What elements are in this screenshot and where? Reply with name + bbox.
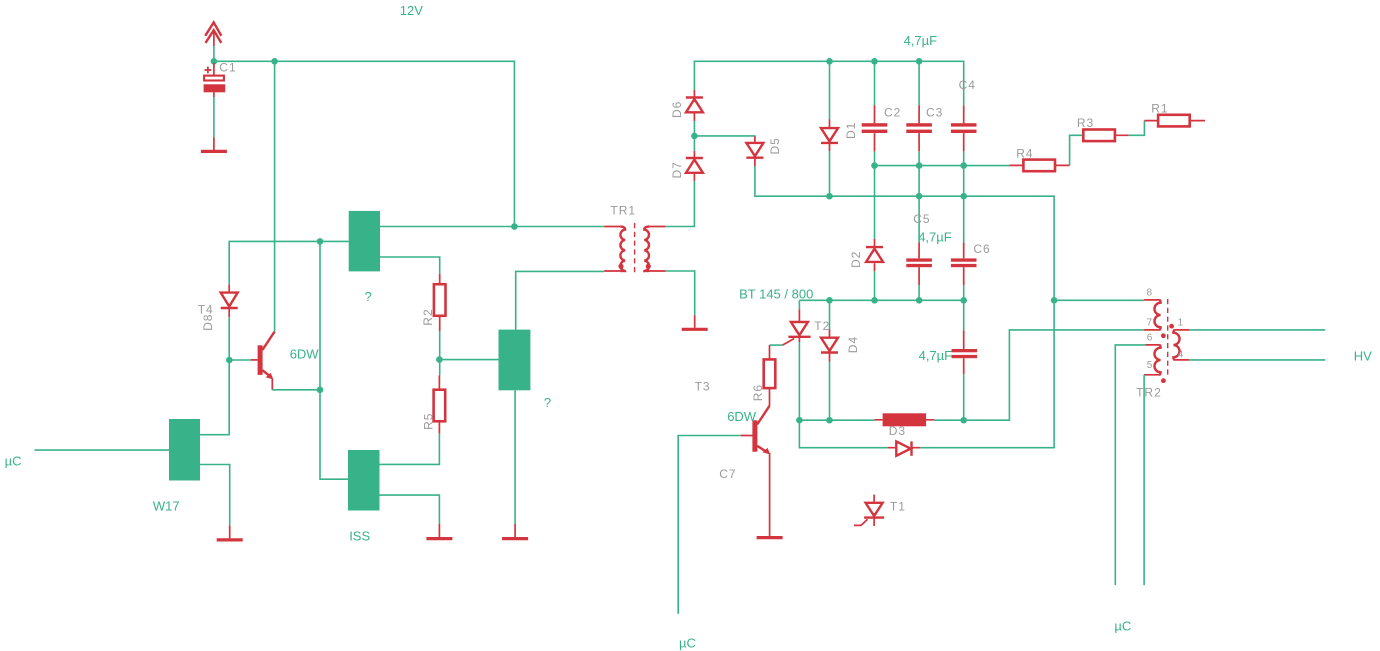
junction rail3 D2 node [871, 297, 878, 304]
wire pin6 down [1115, 345, 1145, 585]
label D7 [670, 161, 684, 178]
wire supply stem [213, 46, 215, 61]
svg-text:C6: C6 [973, 242, 990, 256]
junction D6-D7 node [691, 133, 698, 140]
svg-text:R6: R6 [751, 384, 765, 401]
transistor Q2 6DW [678, 406, 770, 614]
svg-text:C5: C5 [913, 212, 930, 226]
svg-text:D6: D6 [670, 101, 684, 118]
svg-text:6DW: 6DW [727, 409, 757, 424]
label T1 [890, 499, 906, 513]
ground under TR1 [682, 315, 708, 329]
wire cap to rail4 [963, 374, 965, 420]
transistor Q1 6DW [251, 332, 275, 390]
wire block1 left pin to D8 column [229, 241, 349, 284]
wire top rail to C3 [918, 61, 920, 105]
pin number 7 [1147, 318, 1153, 329]
svg-text:HV: HV [1354, 348, 1372, 363]
junction top rail C3 node [916, 58, 923, 65]
label D4 [846, 336, 860, 353]
svg-text:µC: µC [679, 635, 696, 650]
capacitor C3 [906, 105, 932, 151]
inductor-body D3 [875, 413, 935, 426]
capacitor C4 [951, 105, 977, 151]
junction block1 left node [317, 238, 324, 245]
wire T2 anode stem [798, 300, 800, 309]
wire block1 pin3 to R2 [380, 257, 440, 274]
junction pin8 node [1051, 297, 1058, 304]
IC block unnamed2 ? [499, 330, 531, 391]
junction collector riser node [271, 58, 278, 65]
wire rail3 [799, 299, 963, 301]
wire C3 to C5 [918, 151, 920, 242]
label D8 [201, 314, 215, 331]
capacitor C1 [204, 63, 226, 97]
value label 4,7uF bottom [919, 348, 953, 363]
svg-text:C7: C7 [719, 467, 736, 481]
label C5 [913, 212, 930, 226]
svg-text:TR1: TR1 [610, 204, 636, 218]
svg-text:R2: R2 [421, 308, 435, 325]
transformer TR1 [604, 223, 666, 275]
wire pin1 to HV [1189, 329, 1325, 331]
net label 12V [400, 3, 423, 18]
junction supply node [211, 58, 218, 65]
value label 4,7uF mid [918, 229, 952, 244]
junction rail4 T2 node [796, 417, 803, 424]
junction rail2 C5 node [916, 193, 923, 200]
pin number 1 [1178, 318, 1184, 329]
pin number 6 [1147, 333, 1153, 344]
svg-text:D8: D8 [201, 314, 215, 331]
junction rail3 C6 node [960, 297, 967, 304]
svg-text:D1: D1 [844, 122, 858, 139]
wire T2 gate to R6 [770, 344, 783, 346]
junction rail4 cap node [960, 417, 967, 424]
value label ?2 [544, 395, 551, 410]
wire block2 to ground [514, 390, 516, 524]
wire emitter column down to ISS [320, 241, 348, 479]
label C4 [959, 78, 976, 92]
svg-text:?: ? [544, 395, 551, 410]
label D1 [844, 122, 858, 139]
svg-text:6: 6 [1147, 333, 1153, 344]
label R5 [422, 413, 436, 430]
pin number 4 [1178, 350, 1184, 361]
diode D2 [866, 239, 883, 271]
junction base node [226, 357, 233, 364]
junction top rail D1 node [826, 58, 833, 65]
wire divider node to block2 [439, 359, 498, 361]
wire D1 to rail2 [829, 151, 831, 196]
wire C-rail to R4 [875, 165, 1010, 167]
svg-text:TR2: TR2 [1136, 386, 1162, 400]
net label uC right [1114, 619, 1131, 634]
label D3 [889, 424, 906, 438]
wire pin5 down [1143, 375, 1145, 585]
resistor R5 [434, 375, 446, 433]
wire ISS pin2 to ground [380, 495, 440, 524]
wire emitter to column [272, 389, 320, 391]
wire pin4 to HV [1189, 359, 1325, 361]
svg-text:1: 1 [1178, 318, 1184, 329]
wire D4 top [829, 300, 831, 329]
wire D8 to base node and W17 pin [200, 317, 229, 435]
capacitor 4,7uF bottom [952, 330, 978, 374]
svg-text:ISS: ISS [349, 529, 370, 544]
junction TR1 top node [511, 223, 518, 230]
junction rail2 D1 node [826, 193, 833, 200]
net label HV [1354, 348, 1372, 363]
thyristor T2 [783, 309, 811, 345]
label D5 [768, 137, 782, 154]
junction C4 bottom node [960, 162, 967, 169]
capacitor C5 [906, 242, 932, 285]
wire TR1 secondary bottom to ground [666, 271, 695, 315]
label R4 [1016, 146, 1033, 160]
wire 12V rail to drop at x=514 [214, 61, 515, 226]
svg-text:?: ? [365, 289, 372, 304]
label C6 [973, 242, 990, 256]
diode D7 [686, 151, 703, 181]
resistor R6 [764, 345, 776, 406]
wire T2 cathode to rail4 [798, 333, 800, 420]
svg-text:5: 5 [1147, 360, 1153, 371]
ground under W17 [217, 525, 243, 540]
wire block1 to TR1 primary top [380, 226, 604, 228]
wire R4 to R3 [1070, 135, 1084, 165]
diode D5 [746, 136, 763, 166]
ground under C1 [201, 138, 227, 152]
wire base of Q1 [229, 359, 251, 361]
svg-text:W17: W17 [153, 499, 180, 514]
value label W17 [153, 499, 180, 514]
capacitor C6 [951, 242, 977, 285]
svg-text:R3: R3 [1077, 116, 1094, 130]
svg-text:µC: µC [5, 453, 22, 468]
net label BT 145 / 800 [739, 287, 813, 302]
value label 4,7uF top [904, 33, 938, 48]
svg-text:4: 4 [1178, 350, 1184, 361]
value label 6DW [290, 347, 320, 362]
wire TR1 primary bottom to block2 top [516, 271, 605, 329]
label TR1 [610, 204, 636, 218]
diode D6 [686, 90, 703, 121]
svg-text:D7: D7 [670, 161, 684, 178]
value label 6DW right [727, 409, 757, 424]
svg-text:8: 8 [1147, 288, 1153, 299]
junction emitter node [317, 387, 324, 394]
wire C5 to rail3 [918, 285, 920, 300]
resistor R4 [1009, 160, 1069, 172]
IC block W17 [169, 419, 200, 481]
svg-text:4,7µF: 4,7µF [904, 33, 938, 48]
wire D2 to rail3 [874, 271, 876, 300]
wire rail4 right to TR2 pin7 [934, 330, 1144, 420]
svg-text:12V: 12V [400, 3, 423, 18]
diode D8 [221, 285, 238, 318]
wire R3 to R1 [1129, 121, 1145, 136]
junction rail3 D4 node [826, 297, 833, 304]
wire C2 to D2 [874, 151, 876, 239]
resistor R2 [434, 274, 446, 331]
svg-text:C3: C3 [926, 106, 943, 120]
label R1 [1151, 101, 1168, 115]
junction rail3 C5 node [916, 297, 923, 304]
net label uC left [5, 453, 22, 468]
thyristor T1 [854, 495, 884, 526]
label T3 [695, 379, 711, 393]
svg-text:R1: R1 [1151, 101, 1168, 115]
svg-text:D3: D3 [889, 424, 906, 438]
value label ISS [349, 529, 370, 544]
ground under block2 [502, 524, 528, 539]
svg-text:R4: R4 [1016, 146, 1033, 160]
IC block unnamed ? [349, 211, 380, 272]
value label ? [365, 289, 372, 304]
supply symbol 12V arrow [205, 22, 221, 46]
wire rail4 left [799, 419, 874, 421]
svg-text:7: 7 [1147, 318, 1153, 329]
diode D4 [821, 329, 838, 361]
svg-text:BT 145 / 800: BT 145 / 800 [739, 287, 813, 302]
label R6 [751, 384, 765, 401]
wire D6 to top rail [694, 61, 963, 105]
wire C1 to ground [213, 97, 215, 138]
junction top rail C2 node [871, 58, 878, 65]
svg-text:4,7µF: 4,7µF [918, 229, 952, 244]
pin number 5 [1147, 360, 1153, 371]
IC block ISS [348, 450, 380, 511]
ground under Q2 [757, 536, 783, 539]
junction C2 bottom node [871, 162, 878, 169]
svg-text:T2: T2 [814, 319, 830, 333]
svg-text:C2: C2 [884, 106, 901, 120]
svg-text:T1: T1 [890, 499, 906, 513]
label C7 [719, 467, 736, 481]
ground under R5 column [426, 524, 452, 539]
free-wheel diode [888, 441, 921, 455]
resistor R3 [1083, 130, 1128, 142]
pin number 8 [1147, 288, 1153, 299]
svg-text:T3: T3 [695, 379, 711, 393]
wire collector riser [274, 61, 276, 331]
net label uC middle [679, 635, 696, 650]
label T4 [198, 303, 214, 317]
wire C4 to C6 [963, 151, 965, 242]
label C1 [219, 61, 236, 75]
label D6 [670, 101, 684, 118]
label R2 [421, 308, 435, 325]
diode D1 [821, 119, 838, 151]
wire R2 to R5 [439, 331, 441, 375]
svg-text:6DW: 6DW [290, 347, 320, 362]
svg-text:D2: D2 [849, 251, 863, 268]
junction rail4 D4 node [826, 417, 833, 424]
svg-text:D5: D5 [768, 137, 782, 154]
label R3 [1077, 116, 1094, 130]
svg-text:R5: R5 [422, 413, 436, 430]
wire C6 to rail3 [963, 285, 965, 300]
junction C3 bottom node [916, 162, 923, 169]
svg-text:µC: µC [1114, 619, 1131, 634]
wire TR1 secondary top to D7 [666, 181, 695, 227]
resistor R1 [1144, 115, 1205, 127]
wire D5 to mid rail [755, 166, 1054, 448]
wire R5 to ISS pin [380, 434, 440, 465]
label T2 [814, 319, 830, 333]
transformer TR2 [1144, 299, 1189, 383]
label C3 [926, 106, 943, 120]
wire D6-D7 node to D5 [694, 136, 755, 137]
wire rail3 to C7cap [963, 300, 965, 330]
svg-text:C1: C1 [219, 61, 236, 75]
svg-text:D4: D4 [846, 336, 860, 353]
wire W17 pin to ground [200, 465, 230, 526]
svg-text:4,7µF: 4,7µF [919, 348, 953, 363]
wire top rail to C2 [874, 61, 876, 105]
wire D4 bottom [829, 362, 831, 421]
label TR2 [1136, 386, 1162, 400]
junction R2-R5 node [436, 356, 443, 363]
wire pin8 feed [1054, 299, 1144, 301]
wire top rail to D1 [829, 61, 831, 119]
wire uC input to W17 [34, 449, 169, 451]
capacitor C2 [862, 105, 888, 151]
svg-text:C4: C4 [959, 78, 976, 92]
label C2 [884, 106, 901, 120]
wire rail4 drop to free-wheel diode [799, 420, 887, 448]
wire D7 to D6 [693, 121, 695, 151]
junction rail2 C6 node [960, 193, 967, 200]
label D2 [849, 251, 863, 268]
